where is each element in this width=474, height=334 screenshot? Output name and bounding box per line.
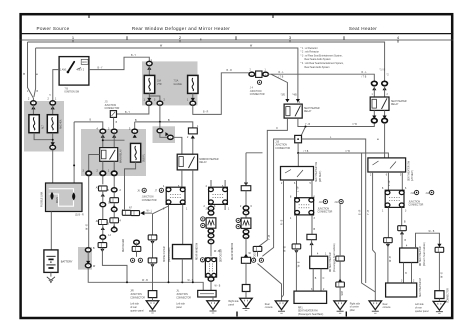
- wire jr gnd: [152, 298, 154, 301]
- wire r2 pins top: [374, 86, 384, 97]
- svg-text:O: O: [276, 128, 278, 130]
- svg-text:* 2 : w/o Retractor: * 2 : w/o Retractor: [301, 51, 320, 54]
- node J/R box: [148, 291, 157, 298]
- node dot circle j9a: [323, 200, 327, 204]
- wire bus B left drop: [34, 48, 36, 97]
- svg-text:JUNCTION: JUNCTION: [318, 208, 330, 210]
- connector oval h1: [249, 72, 255, 76]
- node arrow under A2: [51, 106, 55, 109]
- battery BAT1: [44, 250, 58, 273]
- connector oval B2: [111, 129, 117, 133]
- wire diagonal to J16: [301, 127, 305, 136]
- node gray fuse block: [24, 101, 64, 152]
- wire e2 to f1: [159, 122, 161, 129]
- node dot circle gbx2: [236, 225, 240, 229]
- wire bus B to seat heater relay 1: [36, 48, 298, 102]
- svg-text:R - B: R - B: [281, 219, 283, 225]
- junction connector J8 box: [209, 187, 228, 204]
- svg-text:7.5A: 7.5A: [174, 80, 179, 83]
- node arrow under +B: [191, 135, 195, 138]
- wire A3 to fusible link block: [52, 150, 54, 183]
- node arrow above C1b: [86, 261, 90, 264]
- svg-text:JUNCTION: JUNCTION: [409, 201, 421, 203]
- svg-text:VTR: VTR: [157, 84, 162, 86]
- junction connector J6 box: [166, 187, 185, 204]
- node dot circle ga4: [200, 258, 204, 262]
- wire gb5: [245, 237, 247, 255]
- switch SW LH box: [368, 158, 406, 172]
- relay coil: [101, 150, 106, 159]
- svg-text:KEY 2: KEY 2: [78, 69, 85, 71]
- node ruler tick 4d: [397, 40, 399, 43]
- connector oval A3: [50, 145, 56, 149]
- svg-text:SUB FL: SUB FL: [143, 153, 145, 162]
- wire gb feed: [246, 153, 263, 186]
- wire ga1: [210, 215, 212, 216]
- svg-text:/ 7 B: / 7 B: [362, 77, 367, 79]
- svg-text:FUSIBLE LINK: FUSIBLE LINK: [42, 191, 44, 207]
- node junction dot r1: [305, 126, 307, 128]
- svg-text:console: console: [265, 307, 274, 309]
- svg-text:(RH SEAT): (RH SEAT): [319, 170, 322, 182]
- wire JL to ground: [212, 297, 214, 301]
- node gray box main relay: [81, 129, 146, 176]
- connector oval A1: [31, 101, 37, 105]
- svg-text:CONNECTOR: CONNECTOR: [409, 205, 424, 207]
- wire x255 chain: [262, 139, 294, 256]
- connector oval r2b: [382, 81, 388, 85]
- svg-text:SEAT HEATER RH: SEAT HEATER RH: [298, 310, 318, 313]
- fuse VTR 10A: [144, 75, 154, 93]
- svg-text:R - L: R - L: [362, 72, 368, 74]
- node arrow c3: [101, 227, 105, 230]
- svg-text:Right side: Right side: [229, 300, 240, 303]
- node arrow under B1: [101, 134, 105, 137]
- node J5 box: [110, 111, 116, 118]
- wire fuse VTR bottom: [149, 93, 160, 100]
- wire f2 to relay left pin: [173, 137, 182, 154]
- node header tick 1: [88, 14, 90, 18]
- node arrow mid: [338, 279, 342, 282]
- wire r2 pins bottom: [374, 110, 384, 118]
- node arrow above A3: [51, 142, 55, 145]
- wire relay mh right pin down: [192, 170, 194, 282]
- svg-text:O: O: [323, 278, 325, 280]
- node small box AT: [122, 210, 131, 215]
- node gb square: [242, 285, 250, 292]
- wire fuse GAUGE bottom: [192, 93, 194, 100]
- wire second long vertical: [362, 153, 376, 292]
- wire jr mid: [152, 240, 154, 258]
- svg-text:B - Y: B - Y: [131, 55, 137, 57]
- svg-text:* 3 : w/ Rear Seat Entertainme: * 3 : w/ Rear Seat Entertainment System,: [301, 54, 343, 57]
- svg-text:IGNITION SW: IGNITION SW: [65, 92, 80, 94]
- switch key glyph: [68, 62, 74, 72]
- wire J6 bottom right to filter: [182, 205, 184, 245]
- wire 7B wire to SW LH: [298, 153, 388, 158]
- wire fuse bottoms join: [34, 133, 53, 144]
- svg-text:B - Y: B - Y: [98, 68, 104, 70]
- svg-text:Y - B: Y - B: [368, 209, 370, 215]
- svg-text:AM1 40A: AM1 40A: [60, 119, 63, 129]
- node arrow d2: [112, 205, 116, 208]
- wire E3 to connector C1: [193, 73, 249, 115]
- node junction dot relay feed: [102, 139, 104, 141]
- svg-text:/ 7 B: / 7 B: [345, 151, 350, 153]
- node arrow d4: [112, 225, 116, 228]
- node dot circle x255a: [252, 258, 256, 262]
- junction connector J12 box: [385, 190, 404, 207]
- switch SW1 ignition box: [59, 57, 89, 86]
- node rh lower box: [294, 291, 327, 303]
- svg-text:W - L: W - L: [147, 211, 153, 213]
- svg-text:B - R: B - R: [203, 112, 209, 114]
- svg-text:CONNECTOR: CONNECTOR: [275, 148, 290, 150]
- wire gb4: [245, 228, 247, 229]
- svg-text:DEFOGGER: DEFOGGER: [123, 239, 125, 252]
- connector oval h2: [263, 72, 269, 76]
- node arrow above r2c: [372, 116, 376, 119]
- wire branch to main relay feed: [73, 122, 75, 183]
- node gray patch defog feed: [153, 126, 176, 143]
- node notes block: [301, 47, 345, 69]
- svg-text:console: console: [383, 307, 392, 309]
- node J/L long box: [198, 290, 216, 297]
- svg-text:ALT: ALT: [42, 124, 45, 129]
- wire wb column mid: [339, 204, 341, 255]
- wire B2 to relay: [113, 133, 115, 147]
- wire relay bottom pins: [103, 161, 114, 171]
- node gray box fuses: [142, 61, 198, 105]
- wire c4: [102, 239, 104, 243]
- connector oval f1: [157, 129, 163, 133]
- node noise filter box: [173, 245, 192, 259]
- svg-text:quarter panel: quarter panel: [130, 309, 144, 312]
- switch key head: [67, 71, 70, 74]
- wire sw lh pin1 to rear console: [373, 172, 376, 301]
- svg-text:Y - B: Y - B: [269, 234, 271, 240]
- svg-text:W - B: W - B: [429, 231, 435, 233]
- svg-text:CONNECTOR: CONNECTOR: [447, 288, 449, 303]
- svg-text:W - B: W - B: [299, 261, 301, 267]
- node arrow above E3: [191, 98, 195, 101]
- node ruler tick a: [126, 36, 128, 40]
- wire J8 bottom right stub: [224, 205, 226, 210]
- wire r2d down to SW LH: [384, 123, 386, 158]
- connector oval ga2d: [208, 240, 214, 244]
- wire feed to gray2 left oval: [74, 122, 103, 129]
- node header tick 2: [272, 14, 274, 18]
- svg-text:CONNECTOR: CONNECTOR: [105, 108, 120, 110]
- junction connector J9 box: [295, 198, 314, 215]
- wire lh mid pins: [404, 263, 412, 284]
- node sw lh inner: [373, 161, 397, 169]
- wire c2: [102, 207, 104, 220]
- svg-text:*3/D: *3/D: [281, 95, 286, 97]
- connector oval B1: [100, 129, 106, 133]
- svg-text:Seat Heater: Seat Heater: [349, 26, 377, 31]
- node h box: [256, 71, 262, 77]
- node fold tick a: [236, 312, 238, 317]
- wire gb6: [245, 263, 247, 284]
- node arrow lh right: [400, 231, 404, 234]
- connector oval B5: [100, 171, 106, 175]
- wire lh right down: [401, 231, 403, 248]
- svg-text:W - B: W - B: [441, 272, 443, 278]
- svg-text:/ 7 B: / 7 B: [352, 124, 357, 126]
- svg-text:MIRROR HEATER: MIRROR HEATER: [199, 158, 218, 161]
- wire sw rr pin3: [311, 180, 313, 198]
- connector oval r2c: [372, 118, 378, 122]
- svg-text:of center: of center: [350, 306, 359, 309]
- ground G5 right side: [334, 301, 347, 313]
- svg-text:JUNCTION: JUNCTION: [275, 145, 287, 147]
- wire E1 to J5: [116, 105, 148, 114]
- node chain cbox d4: [110, 218, 119, 223]
- svg-text:Rear: Rear: [383, 303, 388, 306]
- node arrow above r1b: [296, 99, 300, 102]
- wire ga2: [210, 227, 212, 230]
- svg-text:SEAT HEATER LH: SEAT HEATER LH: [419, 278, 422, 297]
- connector oval E1: [146, 101, 152, 105]
- wire switch right pin B-Y: [89, 57, 149, 69]
- svg-text:JUNCTION: JUNCTION: [176, 294, 188, 296]
- svg-text:SEAT HEATER SW: SEAT HEATER SW: [407, 160, 410, 181]
- svg-text:W - B: W - B: [142, 280, 148, 282]
- svg-text:* 4 : w/o Rear Seat Entertainm: * 4 : w/o Rear Seat Entertainment System…: [301, 62, 345, 65]
- wire A1 to fuse ALT: [32, 105, 34, 115]
- connector oval ga2c: [208, 234, 214, 238]
- connector oval ga0: [208, 206, 214, 210]
- node junction dot e2: [159, 121, 161, 123]
- svg-text:*4/B: *4/B: [292, 95, 297, 97]
- ground G4 rear console rh: [275, 301, 288, 313]
- wire B4 down: [88, 176, 90, 248]
- fuse GAUGE 7.5A: [188, 75, 198, 93]
- node J16 box: [295, 135, 302, 142]
- node arrow under r2b: [383, 87, 387, 90]
- node arrow gb0: [244, 183, 248, 186]
- svg-text:of rear: of rear: [130, 306, 137, 309]
- node arrow gb5: [244, 254, 248, 257]
- wire jr down: [152, 263, 154, 291]
- connector oval C1a: [85, 248, 91, 252]
- svg-text:RR SEAT HEATER: RR SEAT HEATER: [419, 246, 422, 266]
- wire fuse C bottom to AT box: [125, 162, 136, 209]
- connector oval d5: [111, 228, 117, 232]
- wire d2: [113, 203, 115, 208]
- ground battery chassis: [50, 272, 52, 276]
- svg-text:MAIN RELAY: MAIN RELAY: [119, 149, 122, 163]
- ground G3: [240, 298, 253, 310]
- wire wb right down: [438, 252, 440, 290]
- svg-text:(Passenger's Seat Back): (Passenger's Seat Back): [298, 313, 323, 316]
- svg-text:SEAT HEATER: SEAT HEATER: [391, 100, 407, 103]
- node wb cbox right: [435, 247, 444, 252]
- wire switch left pin to connector: [53, 70, 59, 101]
- svg-text:CONNECTOR: CONNECTOR: [176, 297, 191, 299]
- wire A2 to fuse AM1: [52, 105, 54, 115]
- node arrow jr: [150, 264, 154, 267]
- relay R1 seat heater: [284, 104, 302, 118]
- svg-text:RELAY: RELAY: [391, 103, 399, 106]
- wire g7: [438, 299, 440, 302]
- fuse F1 ALT: [29, 115, 39, 133]
- node chain cbox 3: [99, 220, 108, 225]
- wire bus A to seat heater relay 2: [28, 42, 385, 81]
- relay MIRROR HEATER: [177, 154, 197, 170]
- wire gb7: [245, 292, 247, 299]
- node chain cbox 1: [99, 186, 108, 191]
- relay R2 seat heater: [370, 97, 389, 110]
- node junction dot j16b: [297, 152, 299, 154]
- svg-text:B - R: B - R: [227, 70, 233, 72]
- node dot circle jb: [159, 188, 163, 192]
- wire ga2e: [210, 238, 212, 240]
- node fusible link block FL1: [46, 183, 83, 212]
- node dot circle j9b: [339, 200, 343, 204]
- wire f1 f2: [160, 133, 167, 138]
- relay R2 coil: [372, 99, 376, 108]
- ground G1: [146, 301, 159, 313]
- node rh cbox left: [292, 244, 301, 249]
- ground G6 rear console lh: [369, 301, 382, 313]
- fusible link FL-b: [72, 192, 75, 200]
- wire d1: [113, 192, 115, 198]
- svg-text:CONNECTOR: CONNECTOR: [130, 297, 145, 299]
- node chain cbox 5: [98, 243, 107, 248]
- wire rh left long down: [295, 249, 297, 291]
- connector oval gb1b: [243, 211, 249, 215]
- node arrow wb right: [437, 244, 441, 247]
- node lh cbox right: [398, 226, 407, 231]
- node gb small box: [241, 186, 251, 191]
- wire relay mh left pin down: [181, 170, 183, 187]
- svg-text:NOISE FILTER: NOISE FILTER: [164, 246, 166, 262]
- svg-text:MAIN: MAIN: [56, 197, 59, 203]
- node contact line: [77, 68, 82, 70]
- svg-text:Left side: Left side: [130, 303, 139, 306]
- node arrow rh left: [294, 250, 298, 253]
- wire between: [87, 252, 89, 263]
- node lh lower box: [386, 283, 417, 297]
- connector oval E0 top: [147, 61, 153, 65]
- node lh cbox left: [384, 238, 393, 243]
- wire J16 bottom down: [297, 143, 299, 153]
- svg-text:(2) B - R: (2) B - R: [75, 215, 84, 217]
- connector oval A2: [50, 101, 56, 105]
- wire W-L stub: [144, 212, 152, 214]
- node arrow under B3: [133, 134, 137, 137]
- svg-text:W - B: W - B: [215, 286, 221, 288]
- node junction dot c: [126, 281, 128, 283]
- relay contact: [110, 150, 116, 160]
- node chain cbox d2: [110, 198, 119, 203]
- wire rh mid pins: [313, 269, 321, 292]
- node FL inner outline: [49, 189, 74, 207]
- node arrow rh right: [310, 242, 314, 245]
- connector oval d3: [111, 207, 117, 211]
- wire r1 bottom right to 7B: [298, 118, 374, 126]
- wire j9 bottom left down: [296, 215, 298, 244]
- node dot circle x255b: [259, 258, 263, 262]
- wire c3: [102, 225, 104, 235]
- fuse C SUB: [131, 143, 141, 162]
- svg-text:W - B: W - B: [86, 224, 88, 230]
- node arrow c1: [101, 193, 105, 196]
- node dot circle le2: [131, 258, 135, 262]
- connector oval le1: [134, 240, 140, 244]
- svg-text:RELAY: RELAY: [199, 161, 207, 164]
- svg-text:1 AM1: 1 AM1: [60, 68, 67, 71]
- node mid cbox 2: [336, 282, 345, 287]
- wire fuse C to relay feed: [103, 139, 125, 141]
- svg-text:/ 7 B: / 7 B: [304, 151, 309, 153]
- connector oval f2: [168, 135, 174, 139]
- node dot circle j12a: [415, 190, 419, 194]
- node W-L arrow: [140, 211, 144, 215]
- connector oval r2a: [372, 81, 378, 85]
- node ruler tick 1d: [72, 40, 74, 43]
- node dot circle j4: [257, 80, 261, 84]
- node gray patch bottom: [78, 247, 92, 270]
- node ruler tick 2d: [179, 40, 181, 43]
- wire jr feed diagonal: [153, 206, 169, 235]
- wire +B to relay: [192, 139, 194, 155]
- svg-text:SEAT HEATER SW: SEAT HEATER SW: [315, 161, 318, 182]
- wire sw rr top pin: [297, 153, 299, 167]
- svg-text:panel: panel: [229, 305, 235, 307]
- connector oval B3: [132, 129, 138, 133]
- wire FL to battery: [50, 212, 52, 250]
- node junction dot j6: [168, 281, 170, 283]
- connector oval gb1: [243, 206, 249, 210]
- connector oval gb3: [243, 230, 249, 234]
- wire bus A left drop: [28, 42, 34, 100]
- node micro labels group: [28, 40, 417, 292]
- node arrow f2: [165, 132, 168, 136]
- node ACC box: [81, 59, 88, 64]
- wire C1b to WB bus: [88, 268, 203, 291]
- svg-text:B - Y: B - Y: [125, 112, 131, 114]
- svg-text:Rear Seat Audio System: Rear Seat Audio System: [305, 66, 330, 69]
- node arrow under B2: [112, 134, 116, 137]
- relay R1 contact: [295, 106, 301, 117]
- connector oval c2: [100, 203, 106, 207]
- relay MAIN box: [100, 148, 118, 162]
- node right square box: [435, 291, 444, 299]
- wire gb1: [245, 191, 247, 206]
- wire j9 bottom right down: [311, 215, 313, 234]
- svg-text:JUNCTION: JUNCTION: [105, 105, 117, 107]
- svg-text:10A: 10A: [157, 80, 162, 83]
- svg-text:J/R: J/R: [130, 291, 134, 293]
- svg-text:W-B: W-B: [342, 291, 344, 296]
- node junction dot mh: [192, 281, 194, 283]
- svg-text:GAUGE: GAUGE: [174, 83, 183, 86]
- svg-text:*1 / B: *1 / B: [380, 70, 386, 72]
- connector oval E3: [190, 101, 196, 105]
- node junction dot fl: [73, 164, 75, 166]
- relay mh contact: [189, 157, 195, 169]
- node dot circle ga2b: [201, 223, 205, 227]
- wire AT stub: [121, 209, 124, 211]
- node arrow under A1: [31, 106, 35, 109]
- wire gb2: [245, 215, 247, 218]
- svg-text:(DEFOGGER): (DEFOGGER): [169, 247, 171, 262]
- connector oval gb3b: [243, 234, 249, 238]
- node arrow above E1: [147, 98, 151, 101]
